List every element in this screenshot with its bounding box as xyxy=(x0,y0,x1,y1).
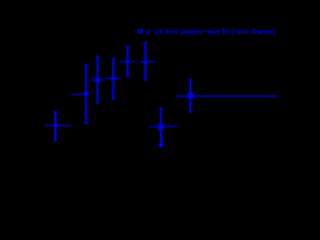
P8 vertical error bar xyxy=(160,109,162,135)
P7 horizontal error bar xyxy=(176,95,279,97)
P3 marker (filled square) xyxy=(95,78,99,82)
P8 marker (open square) xyxy=(159,124,164,129)
P5 top cap xyxy=(126,45,130,47)
P5 horizontal error bar xyxy=(120,61,136,63)
P2 horizontal error bar xyxy=(71,93,90,95)
P6 top cap xyxy=(143,42,147,44)
data point P4 xyxy=(105,58,120,99)
P2 marker (filled triangle-down) xyxy=(83,92,89,97)
legend marker (open square with cross) xyxy=(138,29,143,34)
data point P3 xyxy=(90,57,104,103)
data point P2 (upper-limit style) xyxy=(71,64,90,124)
data point P8 (open square, down arrow) xyxy=(149,109,177,148)
P6 vertical error bar xyxy=(144,43,146,80)
svg-text:2−10 keV power−law fit (rest−f: 2−10 keV power−law fit (rest−frame) xyxy=(146,27,276,36)
P8 arrowhead xyxy=(159,144,164,148)
P8 top cap xyxy=(159,108,163,110)
P1 vertical error bar xyxy=(54,112,56,140)
data point P1 xyxy=(45,112,71,140)
P7 top cap xyxy=(188,79,192,81)
P6 marker (filled triangle-up) xyxy=(143,59,148,64)
P4 horizontal error bar xyxy=(105,78,120,80)
P7 bottom caret xyxy=(189,111,192,113)
P5 marker (filled diamond) xyxy=(125,59,130,64)
P3 vertical error bar xyxy=(97,57,99,103)
P3 top cap xyxy=(96,56,100,58)
P1 bottom cap xyxy=(53,139,57,141)
P4 vertical error bar xyxy=(112,58,114,99)
P6 horizontal error bar xyxy=(140,61,157,63)
P4 marker (filled diamond) xyxy=(111,76,117,81)
P3 bottom cap xyxy=(96,102,100,104)
data point P7 (open square, long right bar) xyxy=(176,80,279,113)
P7 vertical error bar xyxy=(190,80,192,111)
P4 bottom cap xyxy=(111,98,115,100)
P6 bottom cap xyxy=(143,79,147,81)
P2 top Y-arrow prongs xyxy=(84,64,86,67)
P2 vertical error bar xyxy=(85,66,87,123)
data point P5 xyxy=(120,46,136,75)
P8 arrow shaft xyxy=(160,134,163,145)
P8 horizontal error bar xyxy=(149,126,177,128)
P5 bottom cap xyxy=(126,75,130,77)
P1 marker (filled circle) xyxy=(53,123,58,128)
P1 horizontal error bar xyxy=(45,124,71,126)
P1 top cap xyxy=(53,111,57,113)
P3 horizontal error bar xyxy=(90,79,104,81)
P4 top cap xyxy=(111,57,115,59)
P7 marker (open square) xyxy=(188,93,193,98)
P5 vertical error bar xyxy=(127,46,129,75)
P2 bottom cap xyxy=(84,122,88,124)
data point P6 xyxy=(140,43,157,80)
